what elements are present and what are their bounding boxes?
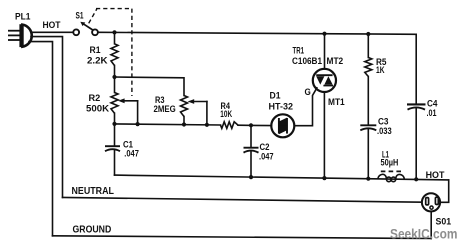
wire top HOT rail	[98, 32, 416, 34]
diac D1	[271, 114, 294, 137]
svg-text:500K: 500K	[86, 104, 109, 115]
svg-text:D1: D1	[270, 91, 282, 102]
wire R2 wiper to bottom wire	[137, 101, 139, 124]
node R2 wiper junction	[136, 122, 140, 126]
svg-text:MT2: MT2	[327, 56, 344, 67]
wire R3 bottom lead	[183, 117, 185, 125]
wire C3 bottom lead	[367, 129, 369, 179]
potentiometer R2	[111, 93, 118, 114]
node C4 bottom	[414, 177, 418, 181]
wire ground from plug down to ground rail	[29, 42, 53, 236]
node C2 top	[249, 123, 253, 127]
capacitor C4	[407, 104, 426, 109]
svg-text:.047: .047	[259, 151, 274, 162]
node top rail / TR1 MT2	[322, 32, 326, 36]
R3 wiper arrow	[188, 99, 207, 104]
capacitor C1	[105, 146, 120, 151]
node C3 bottom	[366, 177, 370, 181]
switch S1 contact right	[92, 29, 98, 35]
wire R5 to C3	[367, 77, 369, 125]
wire bottom control wire left	[115, 124, 221, 125]
PL1 prong 2	[8, 34, 20, 36]
wire R2 bottom lead	[114, 113, 116, 124]
svg-text:TR1: TR1	[293, 46, 305, 57]
node R3 bottom	[182, 122, 186, 126]
svg-text:50µH: 50µH	[381, 157, 399, 168]
svg-text:2MEG: 2MEG	[154, 104, 176, 115]
wire R4 to D1	[238, 124, 271, 126]
node R2 bottom	[112, 122, 116, 126]
svg-text:R1: R1	[90, 45, 102, 56]
svg-text:HT-32: HT-32	[269, 102, 294, 113]
svg-text:HOT: HOT	[426, 170, 445, 181]
wire R1 top lead	[114, 32, 116, 43]
triac TR1	[313, 69, 336, 92]
svg-text:SeekIC.com: SeekIC.com	[390, 227, 458, 242]
wire C1 chain: R2 bottom to C1	[114, 124, 116, 146]
PL1 prong 1	[8, 30, 20, 32]
wire MT2 lead	[324, 34, 326, 69]
resistor R1	[111, 44, 118, 66]
svg-text:PL1: PL1	[15, 12, 31, 23]
svg-text:.01: .01	[427, 108, 437, 119]
svg-text:.033: .033	[377, 126, 392, 137]
svg-text:G: G	[305, 87, 311, 98]
wire top rail corner down to C4	[415, 34, 417, 104]
resistor R4	[221, 122, 239, 129]
wire R2 top lead	[114, 77, 116, 93]
svg-text:HOT: HOT	[43, 20, 61, 31]
node MT1 bottom	[322, 176, 326, 180]
switch S1 contact left	[73, 29, 79, 35]
mechanical linkage S1 to R2 (dashed)	[89, 9, 132, 96]
wire SO1 ground pin to ground rail	[430, 211, 432, 238]
potentiometer R3	[181, 96, 188, 117]
PL1 prong 3	[8, 39, 20, 41]
node top rail / R1	[112, 30, 116, 34]
node R1/R2/R3 junction	[112, 75, 116, 79]
wire D1 to TR1 gate	[294, 88, 317, 126]
svg-text:S1: S1	[76, 11, 84, 22]
capacitor C2	[244, 148, 259, 153]
wire middle rail	[115, 175, 449, 180]
wire R3 wiper to bottom wire	[206, 102, 208, 125]
svg-text:MT1: MT1	[328, 97, 345, 108]
node C2 bottom	[249, 175, 253, 179]
wire neutral from plug down to neutral rail	[31, 37, 63, 198]
node R3 wiper junction	[205, 123, 209, 127]
node top rail / R5	[366, 32, 370, 36]
svg-text:GROUND: GROUND	[73, 225, 112, 236]
wire R1/R2 junction to R3 top	[115, 77, 185, 96]
capacitor C3	[360, 125, 376, 130]
svg-text:2.2K: 2.2K	[87, 56, 108, 67]
wire MT1 lead	[323, 92, 325, 178]
inductor L1	[378, 171, 405, 181]
svg-text:.047: .047	[124, 149, 139, 160]
wire C4 bottom lead	[415, 108, 417, 179]
wire C2 top lead	[250, 125, 252, 147]
wire HOT rail corner to SO1 right	[440, 180, 449, 202]
connector SO1 (AC outlet)	[422, 193, 440, 211]
wire HOT from plug to S1	[31, 31, 73, 33]
svg-text:C106B1: C106B1	[292, 56, 323, 67]
wire R1 bottom lead	[114, 66, 116, 78]
svg-text:10K: 10K	[220, 109, 232, 120]
wire GROUND rail	[53, 236, 432, 239]
svg-text:NEUTRAL: NEUTRAL	[72, 186, 114, 197]
connector PL1 (AC plug)	[21, 24, 32, 47]
wire C2 bottom lead	[250, 152, 252, 178]
svg-text:1K: 1K	[376, 65, 385, 76]
wire C1 bottom lead to middle rail	[114, 150, 116, 175]
wire R5 top lead	[367, 34, 369, 58]
wire NEUTRAL rail	[63, 197, 423, 202]
resistor R5	[365, 58, 372, 77]
R2 wiper arrow	[118, 98, 138, 103]
svg-text:R2: R2	[89, 93, 101, 104]
switch S1 blade	[80, 22, 93, 30]
